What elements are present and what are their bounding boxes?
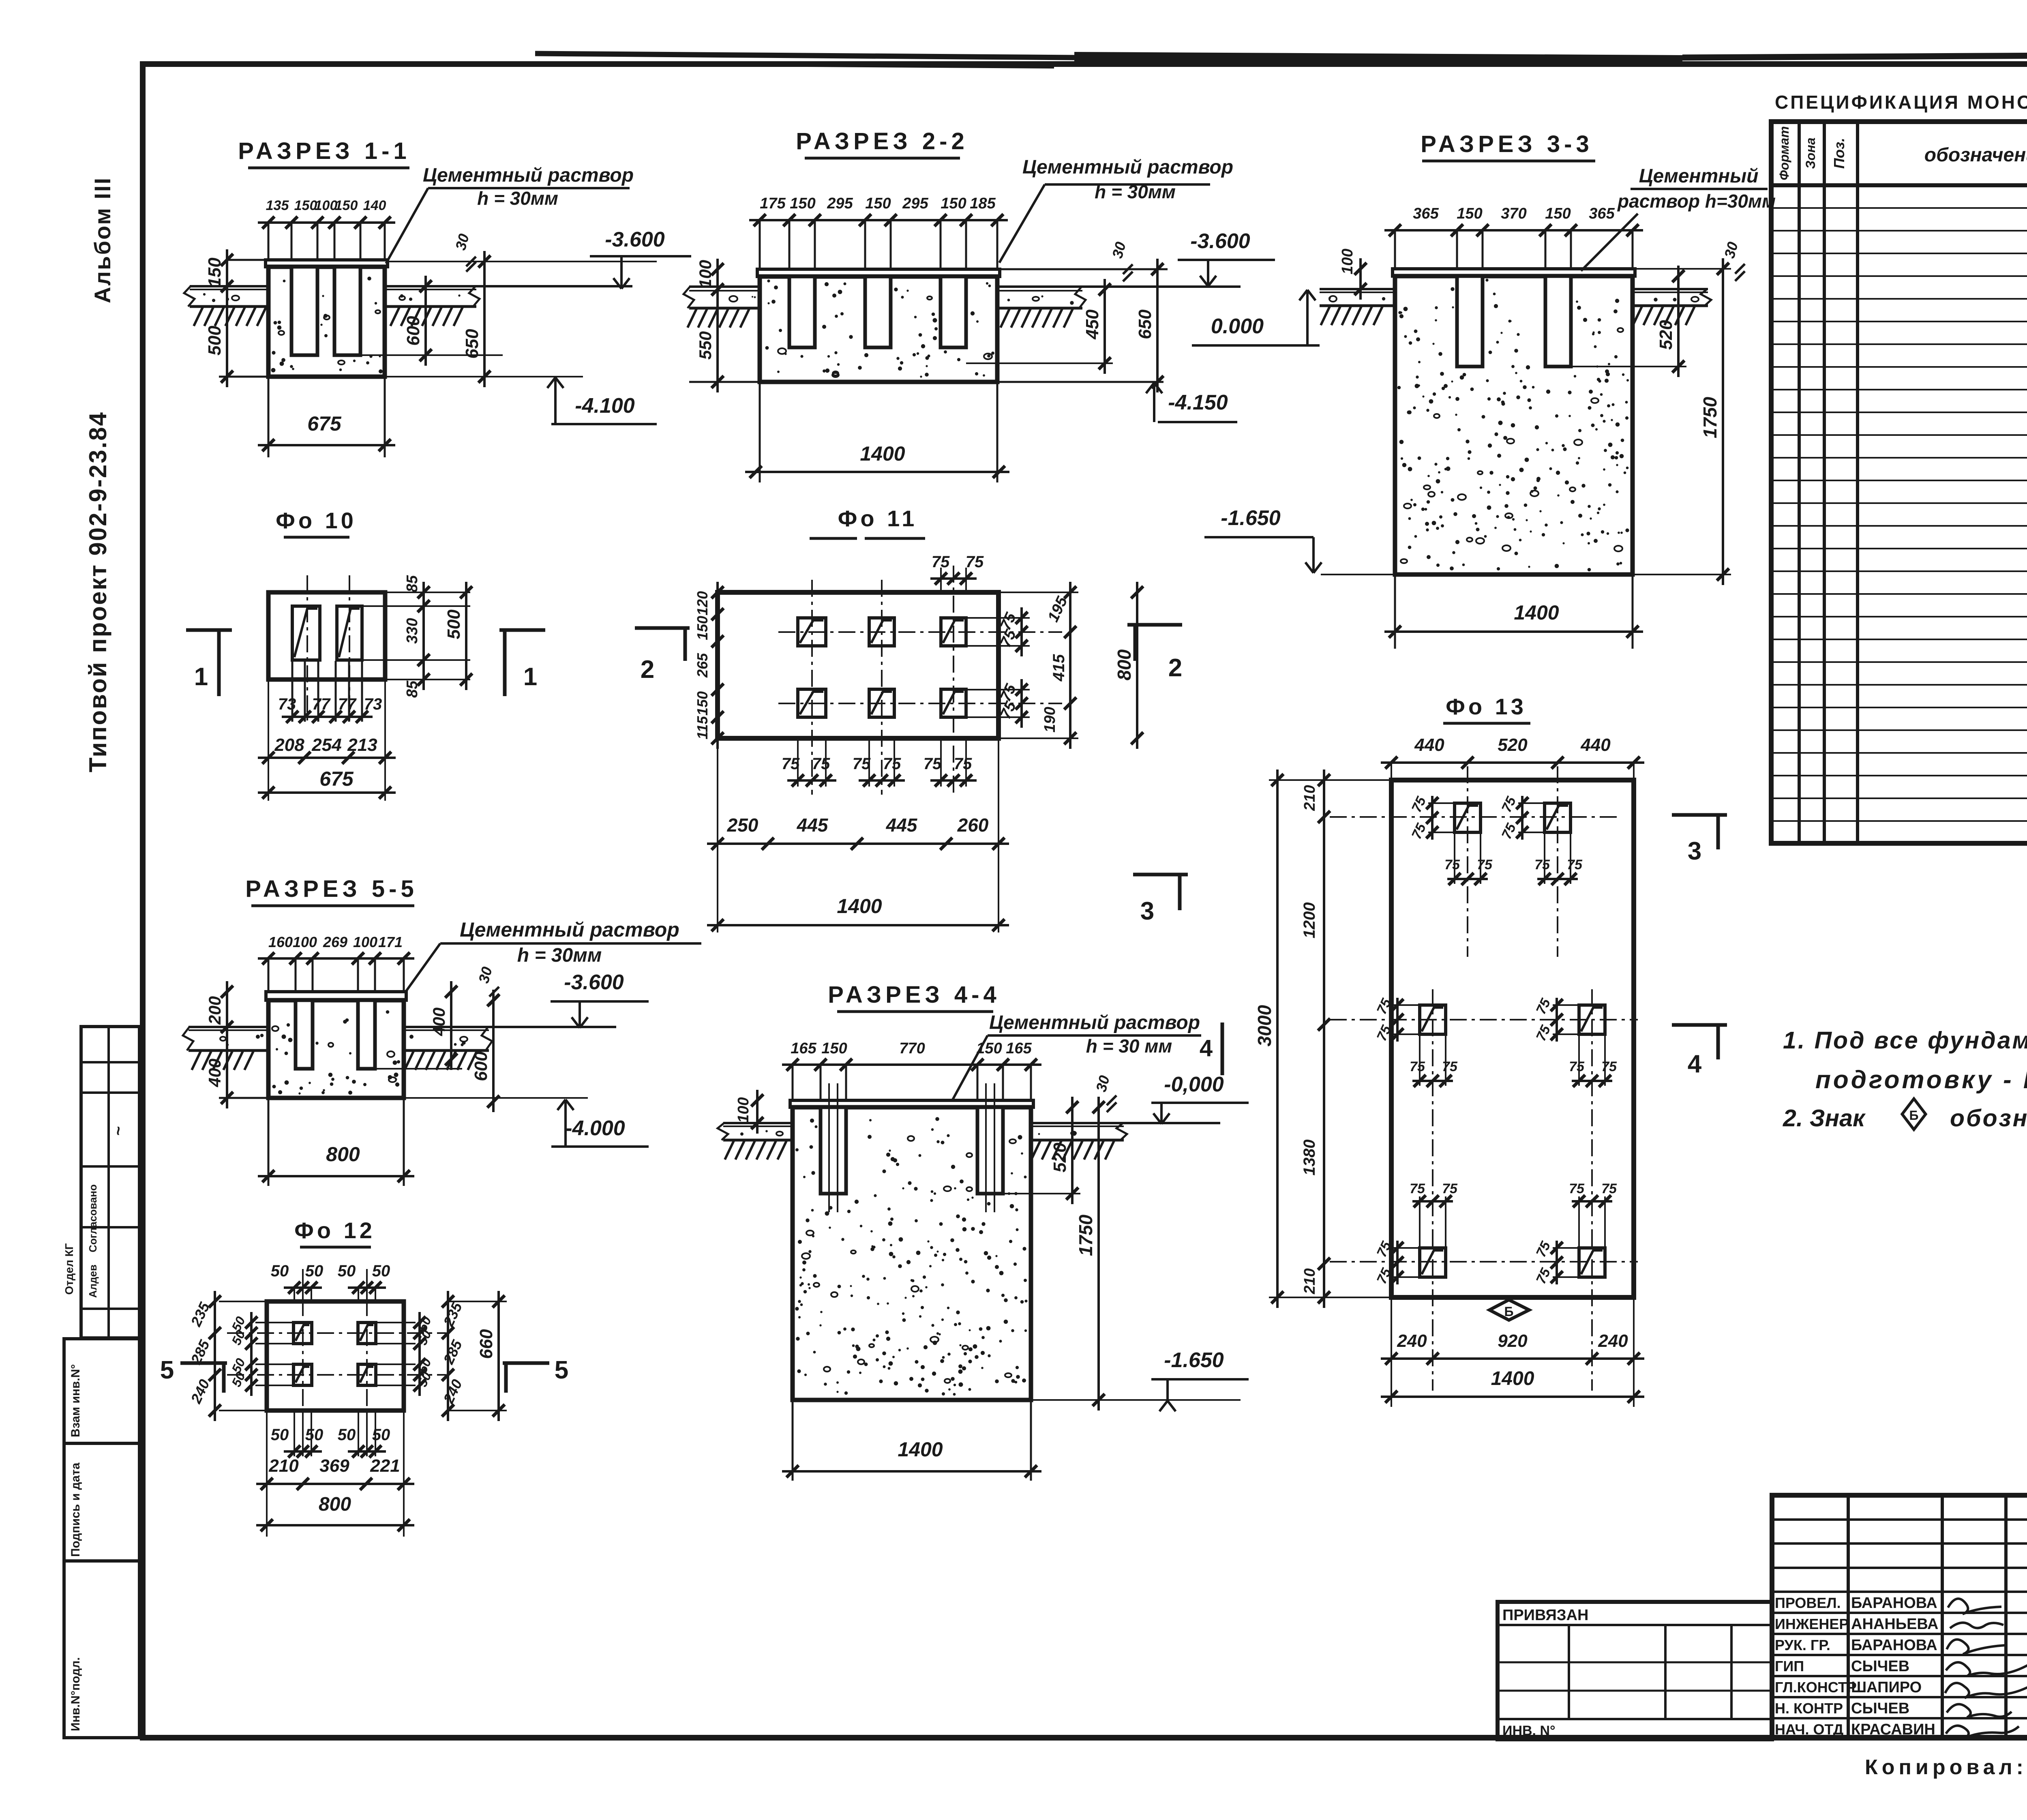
svg-text:4: 4 [1688,1050,1702,1078]
plan Фо13 anchor wells row2 [1420,1005,1446,1034]
svg-text:обозначение: обозначение [1924,144,2027,166]
plan Фо13 top dimension 440/520/440 [1381,735,1644,780]
svg-text:-4.100: -4.100 [575,394,635,418]
svg-text:Цементный раствор: Цементный раствор [989,1012,1200,1033]
svg-text:600: 600 [403,316,423,346]
svg-text:50: 50 [338,1262,356,1280]
svg-text:800: 800 [1114,649,1135,680]
svg-text:50: 50 [305,1426,324,1444]
svg-text:50: 50 [338,1426,356,1444]
svg-text:77: 77 [312,695,331,713]
svg-text:Фо 13: Фо 13 [1446,694,1527,719]
svg-text:Копировал: Коршунова: Копировал: Коршунова [1865,1756,2027,1779]
svg-text:~: ~ [109,1126,127,1136]
plan Фо13 bolt dimensions row2 right [1556,998,1558,1042]
svg-text:800: 800 [319,1494,351,1515]
plan Фо11 bottom dimension 1400 [707,895,1009,931]
svg-text:1400: 1400 [1514,601,1559,624]
plan Фо12 bottom dimensions 210/369/221 [256,1411,414,1537]
margin box Взам инв № [64,1339,139,1443]
svg-text:400: 400 [429,1008,448,1036]
svg-text:-3.600: -3.600 [564,971,624,994]
section 4-4 right dimension 520 [1003,1097,1080,1204]
svg-text:h = 30мм: h = 30мм [517,945,602,966]
scan edge top line [535,52,2027,69]
svg-text:50: 50 [372,1262,390,1280]
svg-text:650: 650 [1135,309,1155,339]
section 4-4 cap 30 dimension [1093,1074,1116,1112]
svg-text:600: 600 [471,1051,491,1081]
svg-text:РАЗРЕЗ 3-3: РАЗРЕЗ 3-3 [1421,131,1593,157]
svg-text:250: 250 [727,815,759,836]
plan Фо10 anchor well right [337,606,362,660]
svg-text:213: 213 [347,735,377,755]
svg-text:НАЧ. ОТД: НАЧ. ОТД [1775,1721,1843,1738]
svg-text:650: 650 [462,329,482,359]
svg-text:-4.000: -4.000 [565,1117,625,1140]
svg-text:Подпись и дата: Подпись и дата [69,1462,82,1557]
plan Фо11 title [810,506,925,538]
plan Фо13 bolt dimensions row1 right [1521,796,1523,840]
plan Фо11 section mark 2 left [635,626,690,630]
svg-text:-1.650: -1.650 [1221,506,1281,530]
svg-text:100: 100 [696,260,715,288]
svg-text:АНАНЬЕВА: АНАНЬЕВА [1851,1616,1938,1633]
plan Фо13 left dimensions 210/1200/1380/210 [1301,770,1330,1308]
plan Фо12 right dimensions 50 pairs [376,1312,434,1396]
svg-text:120: 120 [694,591,711,615]
svg-text:4: 4 [1200,1035,1213,1061]
svg-text:50: 50 [271,1426,289,1444]
plan Фо10 bottom dimensions 208/254/213 [258,680,396,801]
section 3-3 floor slab right [1633,289,1711,325]
plan Фо11 right dimension 800 [1114,582,1143,749]
svg-text:135: 135 [266,198,289,213]
svg-text:165: 165 [791,1040,816,1057]
plan Фо10 anchor well left [292,606,320,660]
svg-text:171: 171 [378,934,403,950]
svg-text:369: 369 [319,1456,349,1476]
svg-text:365: 365 [1413,205,1439,222]
section 4-4 level -1.650 [1031,1348,1249,1411]
plan Фо11 section mark 2 right [1127,623,1182,627]
svg-text:Поз.: Поз. [1831,138,1847,169]
svg-text:75: 75 [1534,857,1550,872]
section 1-1 level -4.100 [547,377,657,424]
svg-text:440: 440 [1580,735,1611,755]
copy note [1865,1755,2027,1779]
svg-text:1750: 1750 [1075,1214,1096,1256]
svg-text:500: 500 [205,326,225,356]
section 5-5 right dimension 600 [375,990,499,1112]
section 5-5 level -4.000 [404,1098,649,1147]
svg-text:75: 75 [966,553,984,571]
plan Фо12 section mark 5 right [503,1356,568,1393]
plan Фо10 section mark 1 left [186,628,232,632]
svg-text:Алдев: Алдев [87,1265,99,1298]
title block outer [1772,1495,2027,1738]
svg-text:3: 3 [1140,897,1154,925]
svg-text:520: 520 [1050,1143,1070,1173]
svg-text:800: 800 [326,1143,360,1166]
plan Фо12 centerlines [227,1269,446,1443]
svg-text:150: 150 [205,257,225,287]
svg-text:h = 30мм: h = 30мм [477,188,558,209]
section 3-3 floor slab left [1320,289,1395,325]
svg-text:210: 210 [1301,1268,1318,1294]
svg-text:5: 5 [555,1356,568,1384]
section 4-4 bottom dimension 1400 [782,1401,1041,1481]
svg-text:450: 450 [1082,309,1102,340]
svg-text:-1.650: -1.650 [1164,1348,1224,1372]
svg-text:415: 415 [1050,654,1068,682]
svg-text:440: 440 [1414,735,1444,755]
svg-text:150: 150 [976,1040,1002,1057]
svg-text:208: 208 [274,735,304,755]
svg-text:75: 75 [1601,1181,1617,1196]
svg-text:ГЛ.КОНСТР: ГЛ.КОНСТР [1775,1679,1857,1696]
section 1-1 right dimension 650 [385,251,657,387]
section 5-5 floor slab left [183,1027,268,1070]
section 1-1 floor slab left [184,286,268,326]
section 5-5 cement mortar note [405,918,701,992]
svg-text:75: 75 [924,755,942,773]
svg-text:-4.150: -4.150 [1168,391,1228,414]
section 3-3 foundation body [1393,269,1635,575]
section mark 4 top [1200,1023,1222,1075]
svg-text:раствор h=30мм: раствор h=30мм [1617,191,1776,212]
svg-text:73: 73 [278,695,296,713]
svg-text:Взам инв.N°: Взам инв.N° [69,1364,82,1437]
section 1-1 cap 30 dimension [452,232,476,272]
svg-text:150: 150 [1545,205,1571,222]
margin box Инв № подл [64,1561,139,1738]
svg-text:75: 75 [782,755,800,773]
svg-text:75: 75 [1567,857,1583,872]
svg-text:ГИП: ГИП [1775,1658,1804,1674]
svg-text:ИНВ. N°: ИНВ. N° [1502,1723,1556,1739]
section 5-5 right dimension 400 [429,981,457,1070]
svg-text:50: 50 [372,1426,390,1444]
svg-text:1. Под все фундаменты выполни: 1. Под все фундаменты выполнить щебеночн… [1783,1027,2027,1054]
plan Фо11 outline [718,592,999,738]
plan Фо11 top dimension 75/75 [930,553,984,592]
svg-text:2. Знак: 2. Знак [1783,1105,1866,1132]
svg-text:75: 75 [1410,1059,1425,1074]
svg-text:1200: 1200 [1301,902,1318,939]
svg-text:БАРАНОВА: БАРАНОВА [1851,1595,1937,1612]
svg-text:-3.600: -3.600 [1190,229,1250,253]
svg-text:100: 100 [293,934,317,950]
svg-text:75: 75 [1442,1181,1458,1196]
svg-text:75: 75 [954,755,972,773]
svg-text:115: 115 [694,716,711,739]
svg-text:1400: 1400 [1491,1368,1534,1389]
section mark 3 right [1672,813,1727,817]
section 1-1 title [238,138,410,168]
plan Фо10 right dimensions 85/330/85 [362,575,470,698]
svg-text:РАЗРЕЗ 4-4: РАЗРЕЗ 4-4 [828,982,1000,1008]
section 4-4 left dimension 100 [735,1090,763,1134]
plan Фо13 left dimension 3000 [1254,770,1391,1308]
svg-text:Отдел КГ: Отдел КГ [63,1243,75,1295]
section 4-4 title [828,982,1000,1012]
plan Фо12 right dimensions 235/285/240 [440,1291,465,1421]
svg-text:ИНЖЕНЕР: ИНЖЕНЕР [1775,1616,1849,1632]
section 4-4 level -0.000 [1151,1073,1249,1124]
svg-text:240: 240 [1397,1331,1427,1351]
svg-text:295: 295 [902,195,928,212]
section 4-4 concrete speckle [803,1176,806,1178]
svg-text:920: 920 [1498,1331,1528,1351]
svg-text:445: 445 [797,815,829,836]
svg-text:100: 100 [735,1097,752,1123]
svg-text:100: 100 [353,934,377,950]
svg-text:330: 330 [404,618,421,643]
svg-text:150: 150 [294,198,317,213]
svg-text:Альбом III: Альбом III [90,177,115,303]
svg-text:Фо 12: Фо 12 [294,1218,375,1243]
plan Фо13 bottom dimension 1400 [1381,1298,1644,1407]
section 5-5 level -3.600 [551,971,649,1028]
svg-text:Цементный раствор: Цементный раствор [423,165,634,186]
section 4-4 top dimension 165-150-770-150-165 [782,1040,1041,1100]
svg-text:85: 85 [404,680,421,698]
spec table headers [1777,126,2027,180]
section 1-1 floor slab right [385,286,632,326]
section 3-3 concrete speckle [1398,311,1401,314]
svg-text:520: 520 [1498,735,1528,755]
svg-text:175: 175 [760,195,786,212]
svg-text:Б: Б [1909,1108,1919,1123]
svg-text:КРАСАВИН: КРАСАВИН [1851,1721,1935,1738]
plan Фо11 anchor wells [798,618,826,646]
svg-text:РАЗРЕЗ 5-5: РАЗРЕЗ 5-5 [245,876,418,902]
svg-text:75: 75 [1569,1181,1585,1196]
section 5-5 foundation body [266,992,406,1098]
svg-text:185: 185 [970,195,996,212]
svg-text:445: 445 [886,815,918,836]
section 1-1 concrete speckle [277,326,282,330]
section 2-2 floor slab right [997,287,1241,328]
svg-text:3000: 3000 [1254,1005,1275,1046]
svg-text:675: 675 [307,412,342,435]
svg-text:Формат: Формат [1777,126,1791,180]
svg-text:75: 75 [812,755,830,773]
svg-text:Б: Б [1504,1304,1514,1319]
section 2-2 foundation body [757,269,1000,382]
section 3-3 cap 30 dimension [1721,240,1745,281]
section 5-5 floor slab right [404,1027,616,1070]
plan Фо12 anchor wells [294,1323,312,1344]
level 0.000 [1192,290,1320,345]
plan Фо10 bottom dimension 675 [258,767,396,799]
plan Фо10 title [276,508,357,537]
section 5-5 bottom dimension 800 [258,1099,414,1186]
plan Фо12 bottom dimension 800 [256,1494,414,1531]
svg-text:1380: 1380 [1301,1140,1318,1176]
svg-text:2: 2 [1168,654,1182,682]
section 2-2 floor slab left [684,287,760,328]
svg-text:Согласовано: Согласовано [87,1184,99,1252]
level -1.650 [1204,506,1395,575]
svg-text:100: 100 [1339,249,1356,274]
svg-text:75: 75 [1569,1059,1585,1074]
svg-text:210: 210 [1301,785,1318,811]
svg-text:75: 75 [1477,857,1493,872]
svg-text:0.000: 0.000 [1211,315,1264,338]
plan Фо11 centerlines [778,566,1062,795]
svg-text:500: 500 [444,609,464,639]
svg-text:85: 85 [404,575,421,592]
plan Фо13 title [1443,694,1530,723]
svg-text:190: 190 [1041,707,1058,732]
svg-text:400: 400 [205,1059,224,1087]
plan Фо10 section mark 1 right [499,628,545,632]
plan Фо12 left dimensions 50 pairs [229,1312,294,1396]
plan Фо10 centerlines [307,575,349,722]
svg-text:1: 1 [194,663,208,691]
plan Фо13 outline [1391,780,1634,1297]
plan Фо12 right dimension 660 [448,1291,507,1421]
plan Фо10 right dimension 500 [444,582,472,690]
plan Фо11 right dimensions 195/415/190 [999,582,1078,749]
svg-text:СЫЧЕВ: СЫЧЕВ [1851,1658,1909,1675]
section mark 3 lower right [1133,873,1188,877]
svg-text:550: 550 [696,331,715,360]
svg-text:1750: 1750 [1699,397,1721,438]
svg-text:150: 150 [335,198,358,213]
title block signatures [1945,1599,2027,1738]
svg-text:-0,000: -0,000 [1164,1073,1224,1096]
section 4-4 foundation body [790,1083,1033,1400]
svg-text:200: 200 [205,996,224,1025]
svg-text:150: 150 [941,195,966,212]
svg-text:Н. КОНТР: Н. КОНТР [1775,1700,1843,1717]
plan Фо12 outline [267,1301,404,1411]
section 1-1 left dimension 150/500 [205,249,268,387]
svg-text:254: 254 [311,735,341,755]
section 1-1 cement mortar note [386,165,634,264]
svg-text:260: 260 [957,815,989,836]
svg-text:160: 160 [268,934,293,950]
svg-text:Фо 11: Фо 11 [838,506,918,531]
svg-text:2: 2 [641,656,654,684]
section 5-5 left dimension 200/400 [205,981,268,1108]
svg-text:h = 30 мм: h = 30 мм [1086,1035,1172,1057]
plan Фо13 bottom dimensions 240/920/240 [1381,1331,1644,1365]
svg-text:РУК. ГР.: РУК. ГР. [1775,1637,1830,1653]
section 2-2 concrete speckle [765,346,769,350]
section 5-5 top dimension 160-100-269-100-171 [258,934,414,992]
plan Фо12 title [294,1218,375,1247]
plan Фо13 anchor wells row3 [1420,1248,1446,1277]
plan Фо10 bottom dimensions 73/77/77/73 [278,661,382,723]
svg-text:1: 1 [523,663,537,691]
spec table grid [1771,122,2027,844]
svg-text:Зона: Зона [1803,137,1818,169]
section 2-2 right dimension 650 [1000,259,1168,392]
section 3-3 top dimension 365-150-370-150-365 [1384,205,1643,269]
svg-text:Инв.N°подл.: Инв.N°подл. [69,1657,82,1731]
section 3-3 right dimension 520 [1571,266,1686,377]
svg-text:269: 269 [323,934,347,950]
plan Фо13 centerlines [1330,766,1638,1391]
svg-text:75: 75 [1410,1181,1425,1196]
svg-text:50: 50 [305,1262,324,1280]
section 1-1 right dimension 600 [360,276,503,366]
svg-text:Цементный раствор: Цементный раствор [1022,156,1233,178]
svg-text:1400: 1400 [860,442,905,465]
plan Фо12 top dimensions 50x4 [271,1262,390,1301]
section 4-4 floor slab right [1031,1123,1220,1160]
svg-text:Типовой проект 902-9-23.84: Типовой проект 902-9-23.84 [84,411,111,772]
plan Фо13 orientation diamond Б [1489,1300,1529,1320]
section 2-2 bottom dimension 1400 [745,383,1009,482]
section 2-2 cement mortar note [999,156,1233,263]
svg-text:5: 5 [160,1356,174,1384]
svg-text:660: 660 [476,1329,496,1359]
svg-text:Цементный раствор: Цементный раствор [460,918,679,941]
svg-text:Цементный: Цементный [1639,165,1759,187]
plan Фо11 left dimensions 120/150/265/150/115 [694,582,724,749]
plan Фо10 outline [268,592,385,680]
section 3-3 left dimension 100 [1339,249,1367,300]
section 1-1 foundation body [266,260,388,377]
svg-text:210: 210 [268,1456,299,1476]
svg-text:1400: 1400 [898,1438,943,1461]
svg-text:50: 50 [271,1262,289,1280]
title block tie-in table [1498,1602,1772,1739]
title block signature grid [1772,1495,2027,1739]
section 4-4 cement mortar note [953,1012,1201,1100]
section 5-5 concrete speckle [276,1048,278,1050]
svg-text:1400: 1400 [837,895,882,918]
svg-text:150: 150 [1457,205,1482,222]
svg-text:165: 165 [1006,1040,1032,1057]
svg-text:75: 75 [932,553,950,571]
section 3-3 bottom dimension 1400 [1384,575,1643,649]
section 4-4 right dimension 1750 [1075,1097,1105,1411]
plan Фо13 bolt dimensions row3 left [1396,1241,1399,1284]
svg-text:150: 150 [694,691,711,716]
svg-text:СЫЧЕВ: СЫЧЕВ [1851,1700,1909,1717]
svg-text:Фо 10: Фо 10 [276,508,357,533]
svg-text:265: 265 [694,653,711,678]
section 3-3 right dimension 1750 [1633,258,1731,585]
svg-text:75: 75 [883,755,901,773]
svg-text:РАЗРЕЗ 1-1: РАЗРЕЗ 1-1 [238,138,410,164]
margin box Подпись и дата [64,1443,139,1561]
plan Фо13 bolt dimensions row1 left [1431,796,1433,840]
section 1-1 level -3.600 [590,228,691,289]
svg-text:РАЗРЕЗ 2-2: РАЗРЕЗ 2-2 [796,128,968,154]
svg-text:150: 150 [821,1040,847,1057]
svg-text:75: 75 [853,755,871,773]
svg-text:370: 370 [1501,205,1526,222]
svg-text:240: 240 [1598,1331,1628,1351]
svg-text:150: 150 [790,195,815,212]
svg-text:75: 75 [1444,857,1460,872]
plan Фо12 bottom dimensions 50x4 [271,1411,390,1458]
section 4-4 floor slab left [718,1123,793,1160]
plan Фо12 left dimensions 235/285/240 [187,1291,267,1421]
svg-text:150: 150 [694,616,711,640]
section 2-2 title [796,128,968,158]
svg-text:БАРАНОВА: БАРАНОВА [1851,1637,1937,1654]
section 2-2 level -4.150 [997,382,1237,422]
svg-text:ШАПИРО: ШАПИРО [1851,1679,1922,1696]
